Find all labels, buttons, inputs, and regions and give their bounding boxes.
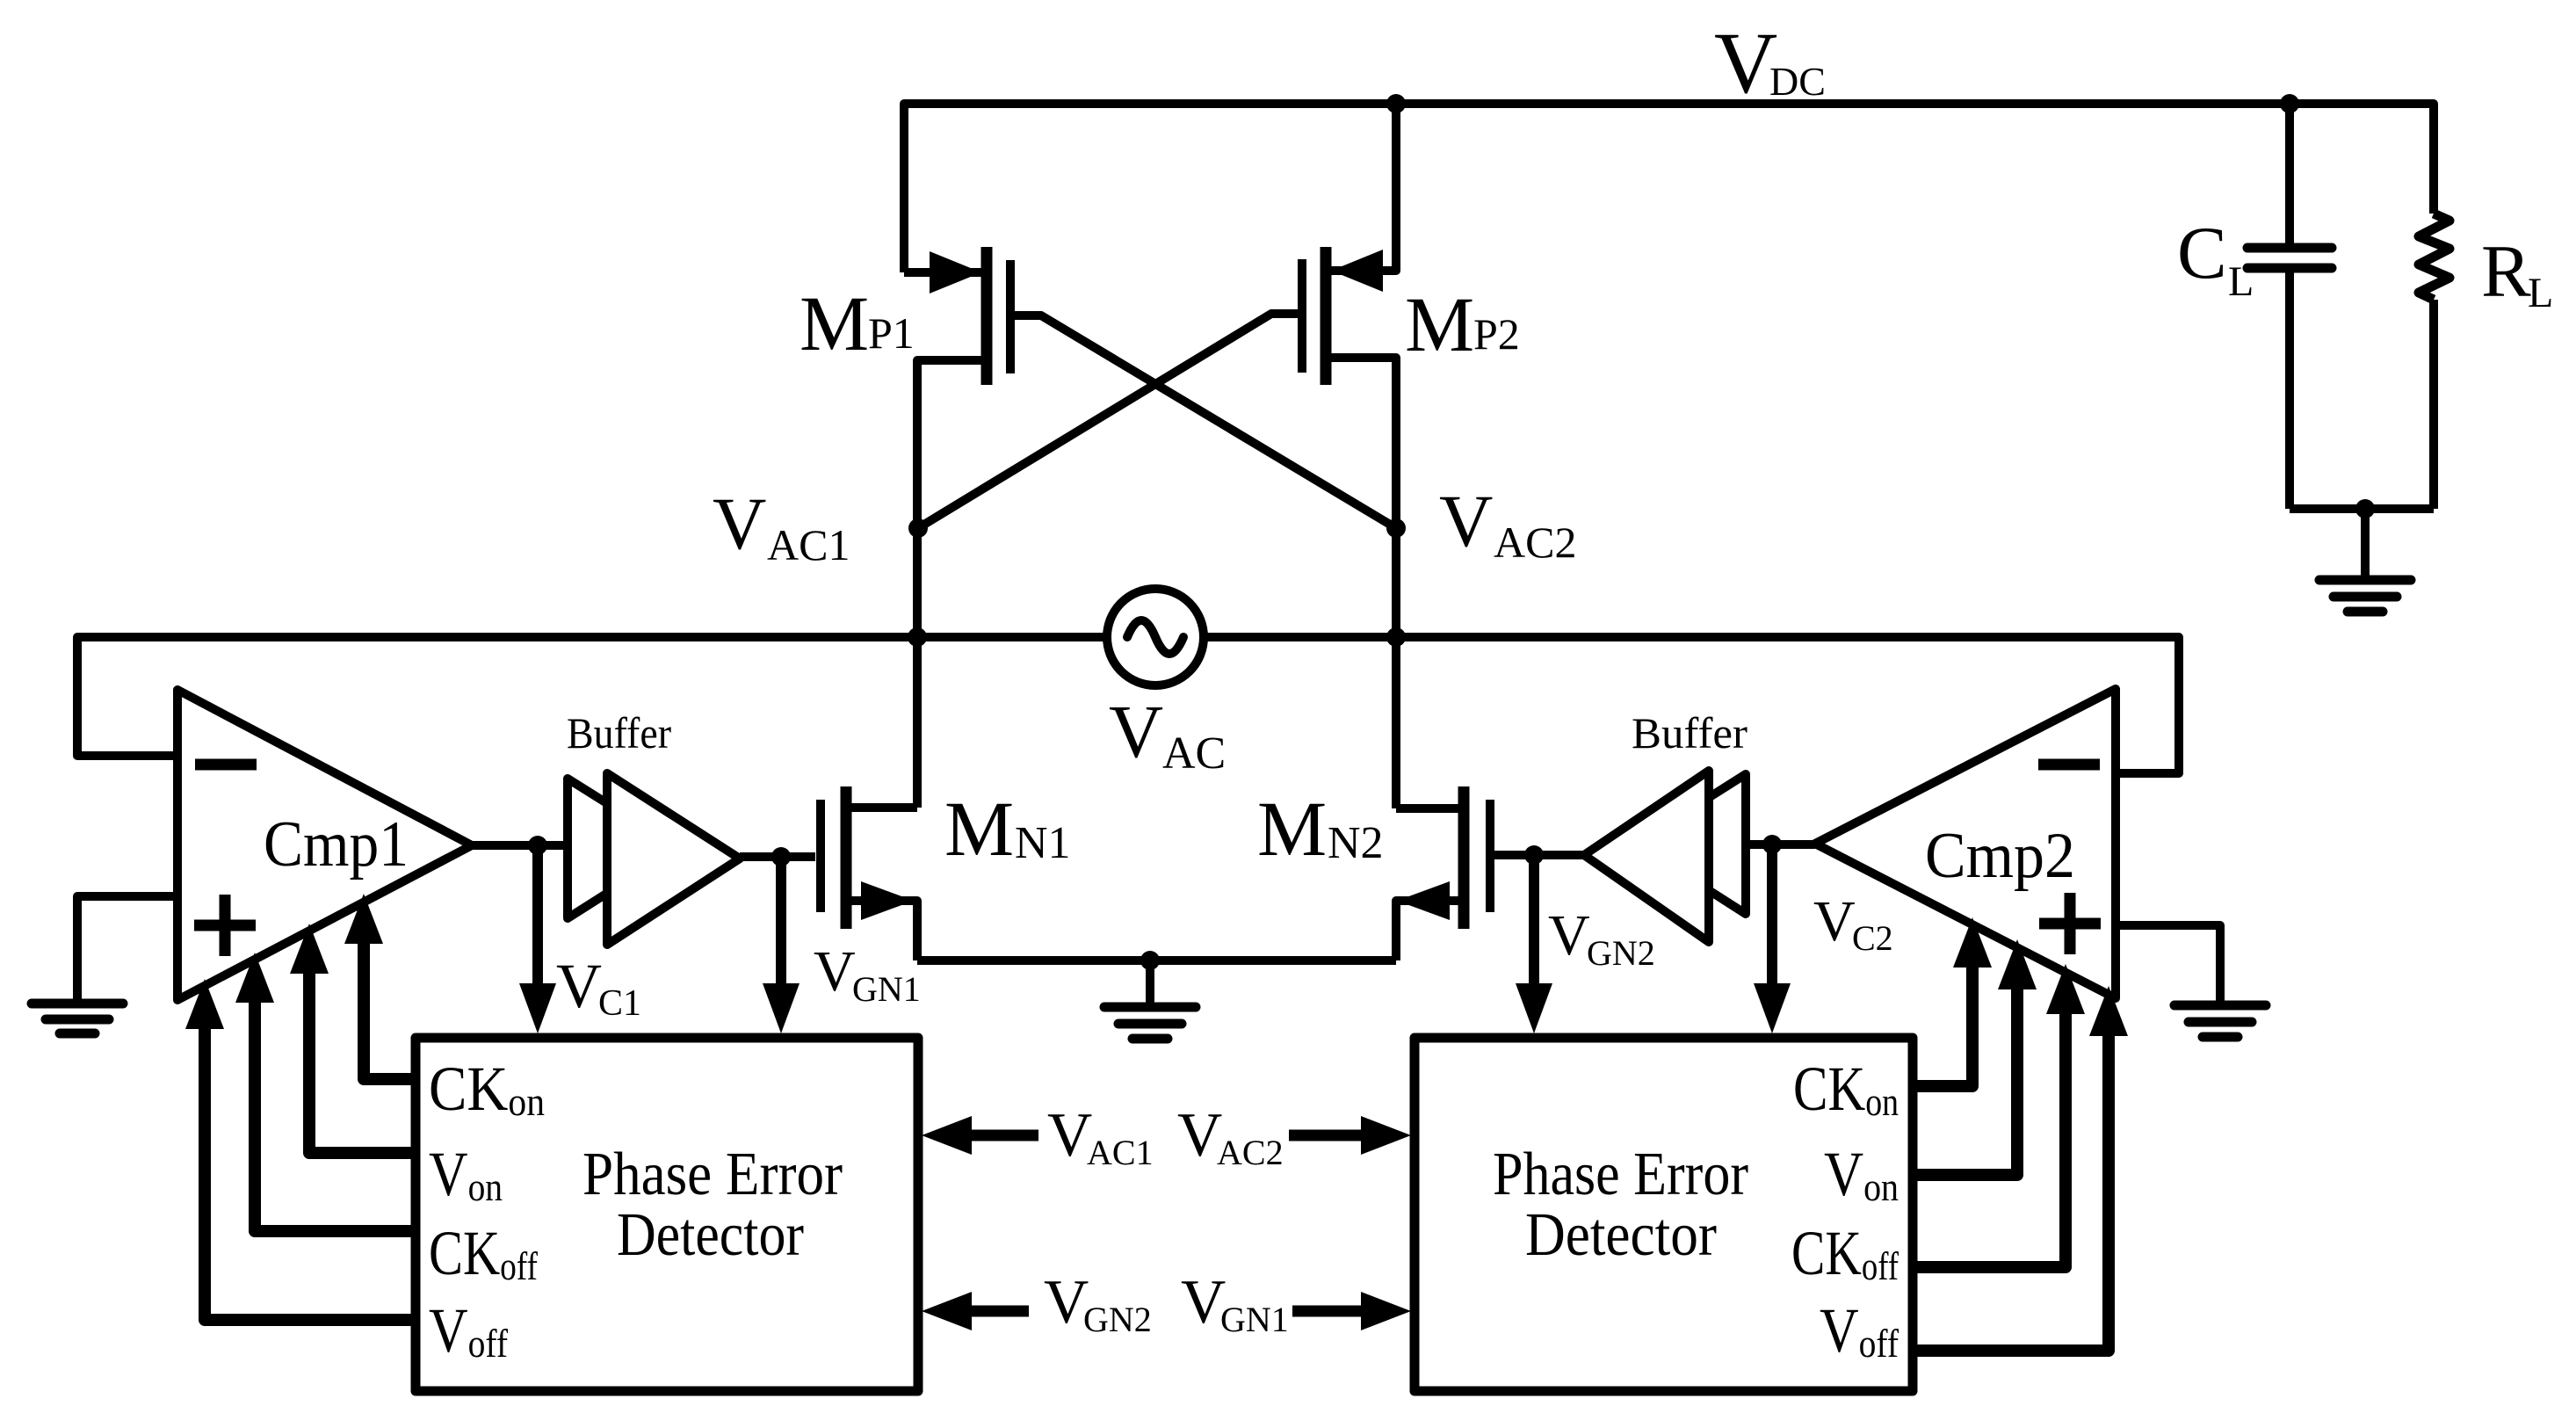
wire buffer left output to VGN1 tap [740,852,781,861]
op-amp Cmp1 triangle [177,690,472,1000]
svg-text:Phase Error: Phase Error [582,1141,843,1208]
svg-text:M: M [1405,282,1474,368]
node dot VGN1 tap [771,847,791,866]
svg-text:V: V [814,939,856,1004]
wire RL bottom vertical [2429,300,2438,509]
transistor MN1 drain stub [851,803,917,812]
ground below Cmp2 plus input [2174,1005,2266,1037]
node VAC2 dot [1386,627,1406,647]
transistor MN1 gate wire from buffer [781,852,815,861]
svg-text:V: V [1714,14,1777,112]
wire left box Von port to Cmp1 arrow [309,962,416,1153]
arrow VAC2 into right box [1289,1130,1362,1141]
svg-text:V: V [1439,480,1493,562]
Cmp1 minus sign [195,759,257,771]
transistor MN2 drain stub [1396,804,1458,813]
svg-text:P1: P1 [868,308,915,358]
svg-text:V: V [1047,1101,1092,1170]
transistor MN1 gate bar [816,800,825,912]
transistor MP1 source arrow [930,251,981,294]
wire VAC2 horizontal to right feedback corner and Cmp2 minus input [1205,637,2179,773]
resistor RL zigzag [2419,214,2449,300]
arrow VGN1 down to left box [776,857,786,986]
svg-text:Buffer: Buffer [1632,708,1747,757]
transistor MN2 gate bar [1486,800,1494,912]
svg-text:N1: N1 [1015,818,1071,868]
svg-text:GN1: GN1 [1220,1300,1289,1339]
svg-text:V: V [1813,889,1856,953]
wire right box Von port to Cmp2 arrow [1913,979,2017,1175]
svg-text:L: L [2528,270,2553,316]
transistor MP2 source arrow [1331,250,1383,292]
svg-text:V: V [1548,903,1590,968]
transistor MP1 gate bar [1006,260,1015,373]
svg-text:M: M [944,786,1014,873]
wire left box Voff port to Cmp1 arrow [205,1018,416,1320]
svg-text:L: L [2228,258,2254,305]
svg-text:V: V [1181,1268,1226,1337]
svg-text:DC: DC [1769,59,1826,104]
wire VAC1 horizontal to left feedback corner and Cmp1 minus input [77,637,1107,756]
arrow VGN1 into right box [1292,1306,1362,1317]
buffer right front triangle [1584,771,1709,942]
transistor MP2 channel bar [1321,247,1332,385]
arrow VGN2 into left box [966,1306,1029,1317]
node dot VGN2 tap [1524,845,1544,865]
svg-text:Cmp2: Cmp2 [1925,820,2075,892]
wire right box CKoff port to Cmp2 arrow [1913,1004,2066,1267]
transistor MN2 source arrow [1397,881,1450,920]
svg-text:GN1: GN1 [852,969,921,1009]
transistor MN2 channel bar [1458,786,1470,929]
transistor MP2 gate stub and cross-couple wire to VAC1 [918,314,1298,528]
wire CL RL bottom joining [2290,504,2434,513]
node dot load ground [2355,499,2375,518]
svg-text:P2: P2 [1473,309,1520,359]
svg-text:C1: C1 [598,983,641,1024]
transistor MN2 source stub [1396,901,1458,960]
svg-text:R: R [2481,230,2531,313]
node dot VC1 tap [528,836,547,855]
arrow VAC1 into left box [966,1130,1038,1141]
wire buffer right output to VGN2 tap [1534,851,1584,859]
arrow VC2 down to right box [1767,844,1777,986]
source VAC circle [1107,589,1204,685]
wire left box CKoff port to Cmp1 arrow [255,991,416,1231]
op-amp Cmp2 triangle [1815,689,2116,998]
transistor MP1 drain stub and vertical to VAC1 [917,360,981,808]
transistor MP2 drain stub and vertical to VAC2 [1331,358,1396,808]
svg-text:AC1: AC1 [1087,1133,1154,1172]
capacitor CL plates [2247,248,2332,268]
node dot MN source rail to ground [1140,951,1160,970]
wire Cmp2 plus input to ground [2116,925,2220,1002]
wire right box Voff port to Cmp2 arrow [1913,1026,2109,1351]
svg-text:Detector: Detector [617,1201,804,1269]
transistor MN1 source arrow [861,881,914,920]
svg-text:V: V [1177,1101,1222,1170]
transistor MP2 source stub wire [1331,104,1396,271]
node dot VC2 tap [1762,835,1782,854]
transistor MN2 gate wire from buffer [1494,851,1534,859]
svg-text:GN2: GN2 [1587,933,1655,973]
box Phase Error Detector right [1415,1038,1913,1391]
transistor MP1 channel bar [981,247,993,385]
ground below load [2319,509,2411,612]
svg-text:Buffer: Buffer [567,708,671,757]
transistor MN1 channel bar [841,786,852,929]
buffer left front triangle [607,773,740,945]
svg-text:Phase Error: Phase Error [1493,1141,1748,1208]
transistor MP2 gate bar [1298,259,1306,373]
Cmp1 plus sign [194,895,256,956]
svg-text:V: V [556,951,602,1021]
svg-text:V: V [713,482,766,565]
transistor MN1 source stub [851,901,917,960]
node dot MP2 source on VDC rail [1386,94,1406,113]
buffer right rear triangle [1636,774,1746,914]
svg-text:AC: AC [1162,728,1226,779]
node VAC1 dot [908,627,927,647]
svg-text:AC1: AC1 [767,520,850,569]
svg-text:AC2: AC2 [1217,1133,1284,1172]
buffer left rear triangle [568,779,678,918]
svg-text:Detector: Detector [1525,1201,1717,1269]
svg-text:M: M [1257,786,1327,873]
transistor MP1 gate stub and cross-couple wire to VAC2 [1015,315,1396,528]
node dot cross-couple at VAC1 vertical [908,518,928,538]
ground center below MN pair [1104,960,1196,1039]
svg-text:C2: C2 [1852,918,1893,958]
svg-text:N2: N2 [1328,818,1384,868]
arrow VGN2 down to right box [1529,855,1539,986]
svg-text:M: M [800,281,869,367]
wire MN source rail [917,956,1396,965]
wire Cmp1 plus input to ground [77,896,177,999]
svg-text:V: V [1044,1268,1089,1337]
svg-text:C: C [2177,212,2227,294]
capacitor CL bottom wire [2285,272,2294,509]
svg-text:Cmp1: Cmp1 [264,808,409,881]
wire VDC rail with corners down to MP1 source and RL top [904,104,2434,272]
transistor MP1 source stub wire [904,268,981,277]
svg-text:GN2: GN2 [1083,1300,1152,1339]
svg-text:AC2: AC2 [1494,518,1576,567]
wire right box CKon port to Cmp2 arrow [1913,957,1972,1086]
Cmp2 minus sign [2038,759,2100,771]
wire Cmp2 output to buffer input [1746,840,1815,849]
arrow VC1 down to left box [532,845,543,986]
ground below Cmp1 plus input [32,1004,123,1033]
capacitor CL top wire [2285,104,2294,243]
wire left box CKon port to Cmp1 arrow [364,933,416,1079]
Cmp2 plus sign [2039,893,2101,954]
svg-text:V: V [1109,689,1163,773]
source VAC sine wave [1127,620,1183,654]
box Phase Error Detector left [416,1038,918,1391]
wire Cmp1 output to buffer input [472,841,568,850]
node dot CL top on VDC rail [2280,94,2299,113]
node dot cross-couple at VAC2 vertical [1386,518,1406,538]
